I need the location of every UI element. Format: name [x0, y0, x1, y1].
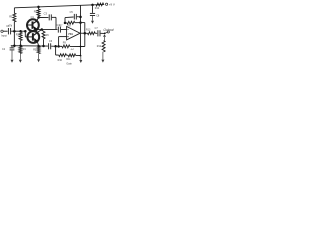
wire feedback vertical	[84, 23, 86, 47]
capacitor C2	[10, 48, 15, 50]
svg-text:Gain: Gain	[66, 61, 72, 65]
terminal output jack	[107, 31, 109, 33]
wire C5 to vertical	[77, 16, 81, 18]
label R3	[33, 48, 37, 51]
resistor R9	[62, 45, 70, 48]
label Q1	[31, 16, 35, 19]
node output terminal junction	[104, 33, 106, 35]
ground arrow below R12	[101, 52, 104, 63]
resistor R11	[68, 54, 75, 57]
wire C7 to output terminal	[101, 32, 105, 34]
node ground drop junction	[80, 55, 82, 57]
node rail junction R6b	[42, 45, 45, 48]
wire input to C1	[3, 30, 7, 32]
wire Q1 emitter to node B	[37, 28, 42, 30]
capacitor C7	[98, 30, 100, 36]
node Q1 collector junction	[37, 16, 40, 19]
transistor Q2	[27, 31, 39, 43]
node output junction	[84, 32, 87, 35]
node R8 left junction	[64, 22, 67, 25]
wire C2 stub	[11, 46, 13, 48]
svg-text:R12: R12	[97, 45, 102, 48]
wire to output jack	[105, 32, 108, 33]
node top rail junction A	[37, 6, 40, 8]
svg-text:741: 741	[68, 32, 73, 36]
label R4	[23, 48, 27, 51]
resistor R12	[102, 41, 105, 52]
resistor R10	[59, 54, 67, 57]
node base junction	[24, 30, 27, 33]
label R10	[58, 59, 63, 62]
label R13	[86, 28, 91, 31]
node noninverting junction	[57, 45, 60, 48]
label C2	[2, 48, 6, 51]
label R1	[9, 15, 13, 19]
label Output	[103, 28, 114, 32]
wire opamp output	[80, 32, 88, 34]
label R5	[34, 9, 38, 13]
svg-text:Input: Input	[1, 34, 7, 38]
wire R13 to C7	[95, 32, 97, 34]
label R2	[16, 33, 20, 37]
resistor R14	[96, 3, 104, 6]
label C6	[49, 40, 53, 43]
wire opamp supply vertical	[80, 5, 82, 55]
capacitor C3	[49, 14, 51, 20]
label Gain	[66, 61, 72, 65]
node gain drop junction	[80, 46, 82, 48]
wire base drop to Q2	[25, 31, 27, 37]
wire rail to R5	[38, 7, 40, 9]
capacitor C8	[90, 13, 95, 15]
label R14	[95, 7, 100, 10]
resistor R13	[88, 32, 96, 35]
wire gain loop corner	[56, 46, 59, 55]
label C5	[70, 11, 74, 14]
wire collector node to C3	[39, 16, 49, 18]
wire R12 top arrow	[103, 34, 106, 40]
wire C5 left bracket	[65, 17, 74, 23]
label R9b	[71, 49, 75, 51]
node C8 junction	[91, 4, 94, 7]
wire Q2 emitter to rail	[37, 41, 38, 46]
terminal input jack	[1, 30, 3, 32]
wire R6 to rail	[43, 39, 45, 46]
wire R2 to bottom rail	[20, 40, 22, 45]
ground arrow below R3	[37, 54, 40, 63]
svg-text:+9 V: +9 V	[109, 3, 115, 7]
wire C8 stub	[92, 5, 94, 13]
label C3	[44, 12, 48, 16]
svg-text:R14: R14	[95, 7, 100, 10]
wire top supply rail	[14, 4, 104, 7]
wire R8 leads	[65, 22, 85, 24]
svg-text:R11: R11	[66, 58, 71, 61]
ground arrow feedback	[79, 56, 82, 63]
label R11	[66, 58, 71, 61]
wire C3 to corner	[52, 17, 56, 29]
node C6 right junction	[54, 45, 57, 48]
capacitor C5	[74, 14, 76, 20]
wire Q2 collector to node B	[37, 30, 41, 33]
node B junction	[41, 28, 44, 31]
node rail junction R1	[13, 44, 16, 47]
svg-text:R2: R2	[16, 33, 20, 37]
op-amp U1	[67, 27, 81, 40]
node R8 crossing junction	[79, 21, 82, 24]
svg-text:R5: R5	[34, 9, 38, 13]
wire bottom rail left	[11, 45, 48, 47]
resistor R5	[37, 9, 40, 16]
ground arrow below C8	[91, 16, 94, 24]
wire node B to C4	[42, 28, 58, 30]
resistor R1	[13, 13, 16, 22]
wire R5 to collector node	[38, 16, 40, 17]
label R6	[46, 34, 50, 37]
wire bottom rail right	[51, 45, 58, 47]
capacitor C1	[8, 28, 10, 34]
label R1 value	[8, 25, 13, 28]
label R9	[63, 42, 67, 45]
ground arrow below R4	[19, 53, 22, 62]
wire left vertical from rail	[13, 8, 15, 13]
svg-text:R13: R13	[86, 28, 91, 31]
ground arrow below C2	[11, 50, 14, 62]
svg-text:R1: R1	[9, 15, 13, 19]
wire C4 to op-amp	[61, 28, 67, 30]
label C8	[96, 15, 100, 18]
svg-text:C1: C1	[6, 24, 10, 28]
label R8	[68, 24, 72, 27]
label C7	[95, 27, 99, 30]
node rail junction R2	[19, 45, 22, 48]
label +9V	[109, 3, 115, 7]
wire node B to R6	[42, 30, 44, 32]
wire noninverting input	[59, 37, 67, 47]
wire Q1 collector to node	[37, 18, 39, 21]
capacitor C6	[49, 43, 51, 49]
node C5 right junction	[79, 16, 82, 19]
capacitor C4	[58, 27, 60, 33]
label C4	[57, 24, 61, 27]
node input junction	[13, 30, 16, 33]
resistor R4	[19, 46, 22, 53]
wire R1 to input node	[13, 22, 15, 46]
transistor Q1	[27, 19, 39, 31]
node rail junction Q2 emitter	[37, 45, 40, 48]
node R2 top junction	[19, 30, 22, 33]
wire R9 leads	[59, 45, 85, 47]
wire R10 to R11	[66, 54, 68, 56]
label C1	[6, 24, 10, 28]
wire R11 to ground node	[76, 54, 81, 56]
svg-text:Output: Output	[103, 28, 114, 32]
svg-text:C3: C3	[44, 12, 48, 16]
label R7	[59, 25, 63, 28]
terminal +9V supply	[106, 3, 108, 5]
resistor R6	[42, 31, 45, 38]
label Input	[1, 34, 7, 38]
svg-text:R10: R10	[58, 59, 63, 62]
resistor R8	[67, 21, 75, 24]
label R12	[97, 45, 102, 48]
wire C1 to base line	[11, 30, 25, 32]
resistor R3	[37, 47, 40, 54]
resistor R2	[19, 32, 22, 40]
